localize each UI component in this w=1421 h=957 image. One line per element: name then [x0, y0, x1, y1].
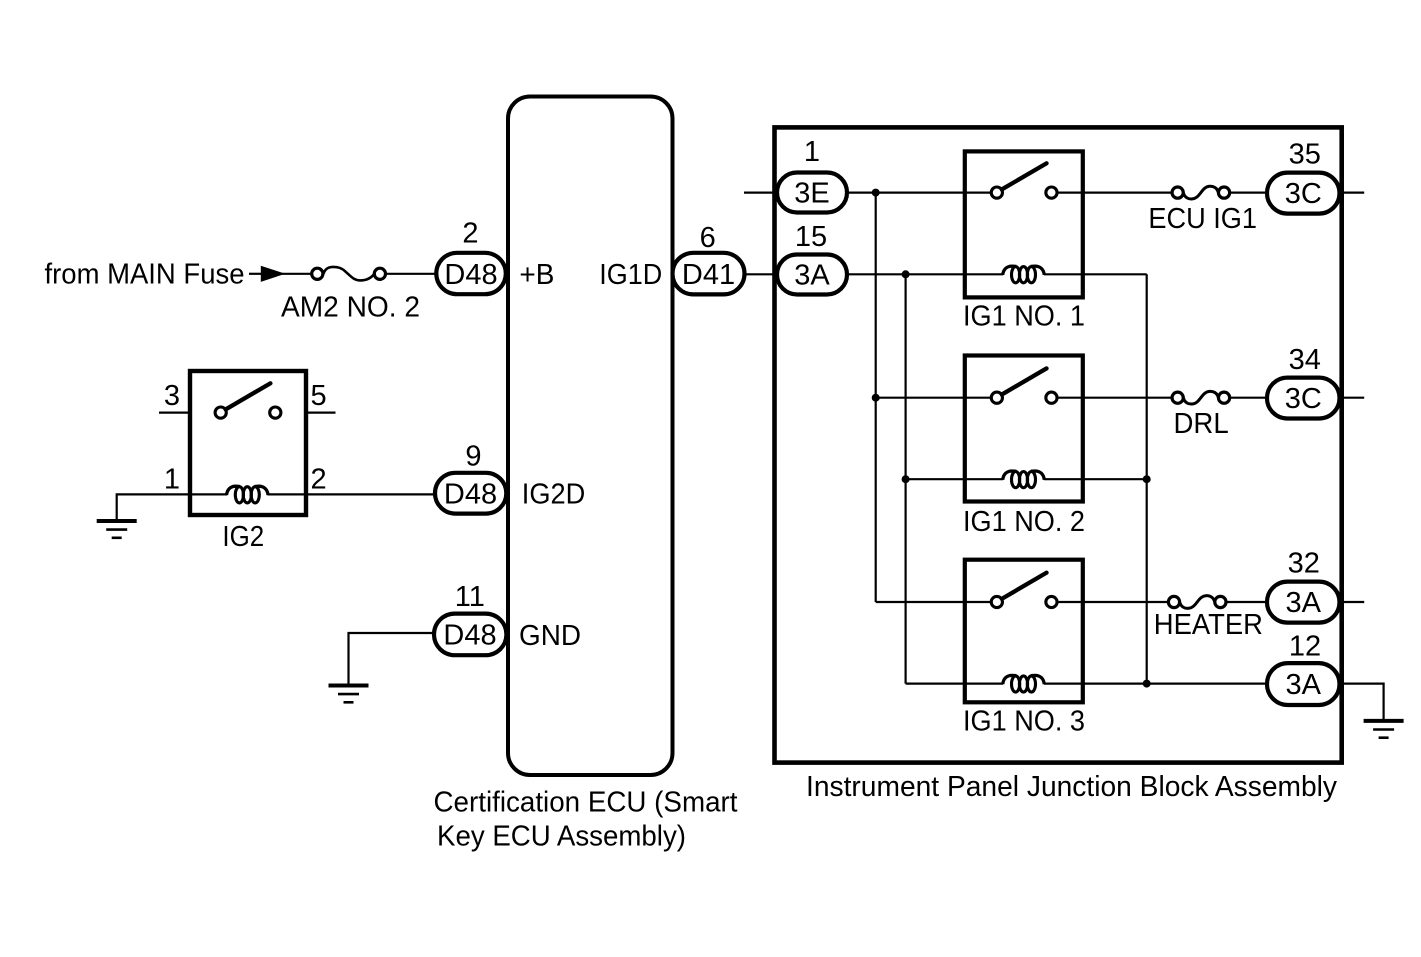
svg-text:5: 5	[311, 380, 327, 412]
svg-text:D41: D41	[682, 259, 735, 291]
svg-text:3C: 3C	[1285, 178, 1322, 210]
svg-text:D48: D48	[444, 259, 497, 291]
connector 3E pin 1	[777, 173, 847, 213]
svg-text:2: 2	[311, 464, 327, 496]
relay IG1 NO. 3 coil	[1003, 675, 1045, 692]
svg-text:3A: 3A	[1286, 669, 1322, 701]
wire 3E row (row A) segments	[847, 192, 1365, 194]
arrow (from MAIN Fuse feed)	[249, 266, 285, 282]
ground (ECU GND)	[329, 686, 369, 703]
wire stub right of 3C pin 34	[1340, 397, 1365, 399]
junction dot (3E row)	[872, 189, 880, 197]
connector D48 pin 2	[436, 253, 506, 294]
svg-text:3A: 3A	[1286, 587, 1322, 619]
Instrument Panel Junction Block box	[775, 127, 1342, 762]
svg-text:9: 9	[465, 441, 481, 473]
svg-text:Key ECU Assembly): Key ECU Assembly)	[437, 821, 686, 853]
wire 3A row (row B) segments	[847, 273, 1147, 275]
svg-text:+B: +B	[519, 259, 554, 291]
vertical bus from 3E junction	[875, 193, 877, 602]
svg-text:6: 6	[700, 222, 716, 254]
junction dot (coil row 3)	[1143, 680, 1151, 688]
relay IG1 NO. 1 box	[965, 151, 1083, 297]
svg-text:IG1D: IG1D	[599, 259, 662, 291]
svg-text:2: 2	[462, 218, 478, 250]
svg-text:ECU IG1: ECU IG1	[1148, 203, 1257, 235]
ground (junction block)	[1364, 721, 1404, 738]
svg-text:3E: 3E	[794, 178, 829, 210]
svg-text:IG2: IG2	[222, 521, 264, 553]
wire DRL fuse to 3C	[1230, 397, 1268, 399]
vertical bus from 3A junction	[904, 274, 906, 683]
svg-text:from MAIN Fuse: from MAIN Fuse	[45, 259, 245, 291]
svg-text:IG1 NO. 2: IG1 NO. 2	[963, 506, 1085, 538]
fuse ECU IG1	[1172, 186, 1230, 199]
connector 3C pin 34	[1267, 378, 1340, 419]
wire IG1 NO.3 coil to 3A pin 12	[1044, 682, 1268, 684]
connector 3A pin 15	[777, 255, 847, 295]
wire IG1 NO.3 coil row	[906, 682, 1003, 684]
connector 3A pin 12	[1267, 663, 1340, 705]
svg-text:1: 1	[804, 136, 820, 168]
wire HEATER fuse to 3A pin 32	[1226, 601, 1268, 603]
svg-text:3C: 3C	[1285, 383, 1322, 415]
svg-text:15: 15	[795, 221, 827, 253]
wire IG2 pin 3 stub	[159, 412, 190, 414]
junction dot (IG1 NO.2 switch row)	[872, 394, 880, 402]
svg-text:GND: GND	[519, 620, 581, 652]
vertical bus coil return (right)	[1146, 274, 1148, 683]
wire stub right of 3A pin 32	[1340, 601, 1365, 603]
svg-text:1: 1	[164, 464, 180, 496]
wire IG2 pin 2 to connector D48 pin 9	[268, 493, 438, 495]
relay IG2 coil (pins 1-2)	[227, 486, 269, 503]
svg-text:Instrument Panel Junction Bloc: Instrument Panel Junction Block Assembly	[806, 771, 1337, 803]
relay IG1 NO. 1 coil	[1003, 266, 1045, 283]
svg-text:D48: D48	[444, 479, 497, 511]
fuse AM2 NO. 2	[312, 267, 386, 281]
svg-text:IG2D: IG2D	[522, 479, 586, 511]
relay IG1 NO. 1 switch	[991, 163, 1057, 198]
relay IG1 NO. 2 coil	[1003, 471, 1045, 488]
svg-text:IG1 NO. 3: IG1 NO. 3	[963, 706, 1085, 738]
junction dot (coil row 2 right)	[1143, 475, 1151, 483]
wire IG2 pin 1 to ground	[117, 494, 227, 521]
svg-text:32: 32	[1288, 548, 1320, 580]
junction dot (coil row 2 left)	[902, 475, 910, 483]
svg-text:DRL: DRL	[1174, 408, 1229, 440]
connector 3A pin 32	[1267, 582, 1340, 623]
relay IG2 switch (pins 3-5)	[215, 383, 281, 418]
junction dot (3A row)	[902, 270, 910, 278]
svg-text:11: 11	[455, 581, 485, 613]
fuse HEATER	[1168, 596, 1226, 609]
wire IG1D to D41 (inside ovals gap)	[745, 273, 779, 275]
svg-text:35: 35	[1289, 139, 1321, 171]
connector D41 pin 6	[673, 253, 745, 295]
svg-text:HEATER: HEATER	[1154, 609, 1263, 641]
svg-text:3: 3	[164, 380, 180, 412]
svg-text:D48: D48	[443, 620, 496, 652]
svg-text:Certification ECU (Smart: Certification ECU (Smart	[434, 787, 738, 819]
wire IG1 NO.2 switch to DRL fuse	[1058, 397, 1173, 399]
wire IG1 NO.2 coil row	[906, 478, 1003, 480]
relay IG1 NO. 2 box	[965, 356, 1083, 502]
Certification ECU body	[508, 97, 673, 776]
svg-text:3A: 3A	[794, 259, 830, 291]
wire IG1 NO.3 switch to HEATER fuse	[1058, 601, 1169, 603]
svg-text:12: 12	[1289, 631, 1321, 663]
svg-text:34: 34	[1289, 344, 1321, 376]
svg-text:AM2 NO. 2: AM2 NO. 2	[281, 292, 420, 324]
wire IG1 NO.2 switch row	[876, 397, 991, 399]
relay IG1 NO. 2 switch	[991, 368, 1057, 403]
connector 3C pin 35	[1267, 173, 1340, 214]
wire IG1 NO.3 switch row	[876, 601, 991, 603]
wire stub into 3E	[744, 192, 778, 194]
wire IG2 pin 5 stub	[306, 412, 336, 414]
wire fuse AM2 to connector D48 pin 2	[386, 273, 438, 275]
wire IG1 NO.2 coil to right bus	[1044, 478, 1147, 480]
relay IG2 box	[190, 371, 306, 515]
connector D48 pin 11	[434, 614, 506, 656]
fuse DRL	[1172, 391, 1230, 404]
relay IG1 NO. 3 box	[965, 560, 1083, 703]
wire arrow to fuse AM2	[282, 273, 312, 275]
svg-text:IG1 NO. 1: IG1 NO. 1	[963, 300, 1085, 332]
relay IG1 NO. 3 switch	[991, 573, 1057, 608]
ground (IG2)	[97, 521, 137, 538]
wire 3A pin 12 to ground	[1340, 684, 1384, 721]
connector D48 pin 9	[435, 473, 506, 514]
wire connector D48 pin 11 to ground	[349, 633, 436, 684]
